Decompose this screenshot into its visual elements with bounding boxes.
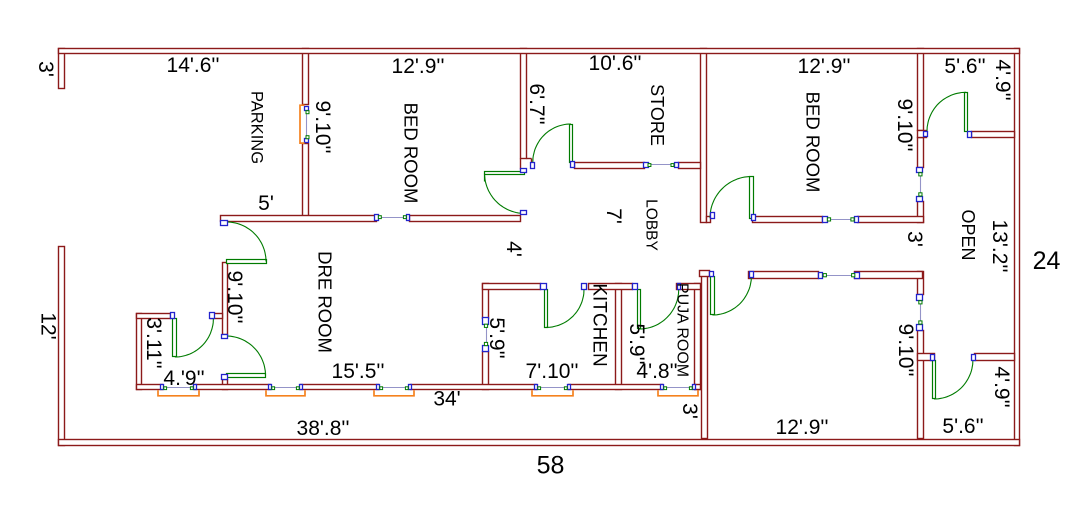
svg-text:3'.11'': 3'.11'' bbox=[142, 317, 165, 368]
svg-text:4': 4' bbox=[502, 241, 525, 257]
svg-text:BED ROOM: BED ROOM bbox=[803, 92, 824, 193]
svg-text:OPEN: OPEN bbox=[958, 209, 978, 260]
svg-text:KITCHEN: KITCHEN bbox=[589, 283, 610, 366]
svg-text:13'.2'': 13'.2'' bbox=[988, 220, 1011, 273]
svg-text:STORE: STORE bbox=[647, 84, 667, 146]
svg-text:PUJA ROOM: PUJA ROOM bbox=[674, 283, 691, 377]
svg-text:38'.8'': 38'.8'' bbox=[297, 417, 350, 440]
svg-text:9'.10'': 9'.10'' bbox=[223, 271, 246, 324]
svg-text:58: 58 bbox=[537, 452, 565, 480]
svg-text:12'.9'': 12'.9'' bbox=[798, 55, 851, 78]
svg-text:3': 3' bbox=[903, 231, 926, 247]
svg-text:4'.9'': 4'.9'' bbox=[990, 366, 1013, 407]
svg-text:10'.6'': 10'.6'' bbox=[589, 52, 642, 75]
svg-text:5'.9'': 5'.9'' bbox=[625, 323, 648, 364]
svg-text:3': 3' bbox=[34, 61, 57, 77]
svg-text:DRE ROOM: DRE ROOM bbox=[315, 251, 336, 353]
svg-text:34': 34' bbox=[433, 387, 460, 410]
svg-text:7': 7' bbox=[602, 208, 625, 224]
svg-text:12': 12' bbox=[36, 312, 59, 339]
svg-text:12'.9'': 12'.9'' bbox=[392, 55, 445, 78]
svg-text:9'.10'': 9'.10'' bbox=[893, 99, 916, 152]
svg-text:BED ROOM: BED ROOM bbox=[401, 103, 422, 204]
svg-text:4.'9'': 4.'9'' bbox=[163, 367, 204, 390]
svg-text:PARKING: PARKING bbox=[247, 91, 265, 164]
svg-text:5'.9'': 5'.9'' bbox=[485, 317, 508, 358]
svg-text:9'.10'': 9'.10'' bbox=[894, 324, 917, 377]
svg-text:7'.10'': 7'.10'' bbox=[526, 360, 579, 383]
svg-text:5'.6'': 5'.6'' bbox=[942, 415, 983, 438]
svg-text:5'.6'': 5'.6'' bbox=[944, 55, 985, 78]
svg-text:4'.9'': 4'.9'' bbox=[991, 59, 1014, 100]
svg-text:6'.7'': 6'.7'' bbox=[525, 83, 548, 124]
svg-text:3': 3' bbox=[678, 403, 701, 419]
svg-text:14'.6'': 14'.6'' bbox=[167, 54, 220, 77]
svg-text:5': 5' bbox=[258, 192, 274, 215]
svg-text:15'.5'': 15'.5'' bbox=[332, 360, 385, 383]
svg-text:LOBBY: LOBBY bbox=[643, 199, 660, 251]
svg-text:12'.9'': 12'.9'' bbox=[776, 416, 829, 439]
svg-text:24: 24 bbox=[1033, 247, 1061, 275]
svg-text:9'.10'': 9'.10'' bbox=[311, 101, 334, 154]
